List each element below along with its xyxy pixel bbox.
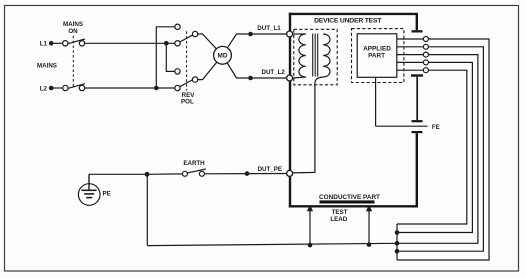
svg-text:PART: PART xyxy=(368,53,385,60)
applied part terminal 1 return path xyxy=(397,39,489,260)
node DUT_PE xyxy=(245,166,282,176)
switch MAINS ON pole L2 xyxy=(63,84,85,91)
wire primary bottom to DUT_L2 terminal xyxy=(293,77,306,78)
svg-text:MAINS: MAINS xyxy=(37,63,57,70)
switch REV POL blade (top pole) xyxy=(180,33,198,42)
svg-text:ON: ON xyxy=(68,28,78,35)
ground PE symbol xyxy=(78,174,100,205)
applied part box xyxy=(357,34,397,78)
measuring device MD xyxy=(214,46,232,64)
svg-text:MAINS: MAINS xyxy=(63,21,83,28)
svg-text:CONDUCTIVE PART: CONDUCTIVE PART xyxy=(319,194,380,201)
junction dots on collector xyxy=(395,230,400,253)
terminal L2 xyxy=(40,85,54,92)
switch MAINS ON pole L1 xyxy=(63,39,85,46)
wire REV POL top to MD xyxy=(198,34,223,55)
svg-text:MD: MD xyxy=(218,53,228,60)
junction dot on L2 xyxy=(154,86,159,91)
transformer T1 secondary winding xyxy=(323,34,330,77)
label TEST LEAD xyxy=(330,209,347,223)
wire L2 to REV POL xyxy=(85,87,175,89)
svg-text:EARTH: EARTH xyxy=(183,160,205,167)
svg-text:FE: FE xyxy=(432,124,440,131)
label REV POL xyxy=(181,92,195,105)
terminal L1 xyxy=(40,41,54,48)
svg-text:POL: POL xyxy=(181,99,194,106)
wire secondary to DUT_PE terminal xyxy=(293,77,324,173)
switch REV POL blade (bottom pole) xyxy=(180,77,198,86)
capacitor FE lower plate xyxy=(412,131,423,133)
junction dot on L1 xyxy=(164,41,169,46)
wire earth down xyxy=(146,174,148,245)
capacitor plate (middle section top) xyxy=(411,74,423,76)
conductive part bar xyxy=(320,200,375,203)
transformer T1 core xyxy=(313,34,318,77)
wire PE to earth switch xyxy=(89,173,183,175)
capacitor FE upper plate xyxy=(412,120,423,122)
terminal DUT_PE on box xyxy=(287,170,293,176)
switch REV POL contact a (from L2 crossover) xyxy=(175,24,180,29)
svg-text:L2: L2 xyxy=(40,85,48,92)
switch MAINS ON (label) xyxy=(63,21,83,35)
switch MAINS ON gang dashed link xyxy=(72,36,74,88)
junction dot earth xyxy=(145,172,150,177)
applied part terminal circles xyxy=(423,37,428,73)
svg-text:DUT_PE: DUT_PE xyxy=(258,166,282,173)
wire middle section stem xyxy=(416,77,418,121)
applied part terminal 3 return path xyxy=(397,55,478,244)
capacitor plate (enclosure, upper) xyxy=(412,30,423,32)
svg-text:DUT_L1: DUT_L1 xyxy=(257,25,281,32)
wire DUT_L2 to DUT box xyxy=(251,77,287,79)
switch REV POL contact d (from L2) xyxy=(175,85,180,90)
node DUT_L1 xyxy=(248,25,281,36)
wire MD to DUT_L1 xyxy=(223,34,249,55)
wire earth switch to DUT_PE xyxy=(204,173,286,175)
applied part terminal 5 return path xyxy=(397,70,467,224)
node FE wire xyxy=(376,125,428,127)
svg-text:L1: L1 xyxy=(40,41,48,48)
node DUT_L2 xyxy=(248,69,285,80)
wire earth bottom run xyxy=(147,243,397,245)
switch REV POL contact b (from L1) xyxy=(175,41,180,46)
transformer T1 dashed box xyxy=(294,29,337,85)
applied part lead wires to terminals xyxy=(397,39,424,70)
svg-text:DEVICE UNDER TEST: DEVICE UNDER TEST xyxy=(314,18,382,25)
DUT box (device under test enclosure, thick) xyxy=(289,13,418,208)
switch REV POL common top xyxy=(192,31,197,36)
wire applied part to FE node xyxy=(375,77,377,126)
svg-text:TEST: TEST xyxy=(332,209,348,216)
wire L2 to switch xyxy=(53,87,63,89)
svg-text:LEAD: LEAD xyxy=(330,216,347,223)
switch REV POL common bottom xyxy=(192,77,197,82)
test lead arrow left xyxy=(307,205,313,248)
wire L1 to REV POL xyxy=(85,42,175,44)
switch REV POL contact c (from L1 crossover) xyxy=(175,69,180,74)
transformer T1 primary winding xyxy=(299,34,306,77)
applied part terminal 4 return path xyxy=(397,62,472,232)
wire DUT_L1 terminal to primary xyxy=(293,33,306,35)
switch REV POL gang dashed link xyxy=(186,31,188,90)
terminal DUT_L2 on box xyxy=(287,75,293,81)
terminal DUT_L1 on box xyxy=(287,31,293,37)
wire DUT_L1 to DUT box xyxy=(251,33,287,35)
svg-text:PE: PE xyxy=(103,191,111,198)
applied part terminal 2 return path xyxy=(397,47,483,251)
switch EARTH xyxy=(182,169,205,176)
wire L1 to switch xyxy=(53,42,62,44)
svg-text:DUT_L2: DUT_L2 xyxy=(262,69,286,76)
wire L2 crossover (up to top-left contact) xyxy=(156,27,175,88)
svg-text:APPLIED: APPLIED xyxy=(363,45,391,52)
applied part dashed box xyxy=(352,29,404,83)
wire REV POL bottom to MD xyxy=(198,55,223,79)
wire MD to DUT_L2 xyxy=(223,55,249,78)
wire L1 crossover (down to lower-left contact) xyxy=(166,43,175,71)
test lead arrow right xyxy=(366,205,372,247)
collector wire (left vertical) xyxy=(396,224,398,260)
